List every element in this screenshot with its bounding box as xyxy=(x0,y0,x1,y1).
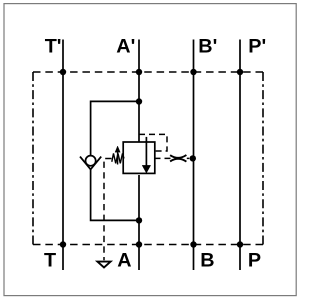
enclosure bottom dashed edge xyxy=(33,244,263,246)
restrictor R1 xyxy=(170,155,186,158)
svg-text:A': A' xyxy=(116,35,135,57)
flow control valve U1 envelope xyxy=(123,142,155,173)
svg-text:T: T xyxy=(44,249,56,271)
junction dot A top xyxy=(136,69,142,75)
wire A line lower xyxy=(138,175,140,270)
svg-text:B: B xyxy=(200,249,214,271)
svg-text:P: P xyxy=(248,249,261,271)
junction dot T bottom xyxy=(60,241,66,247)
svg-text:B': B' xyxy=(198,35,217,57)
check valve V1 circle xyxy=(86,156,96,166)
wire T line xyxy=(62,40,64,271)
pilot line from A to U1 top xyxy=(139,134,167,151)
enclosure top dashed edge xyxy=(33,71,263,73)
junction dot A bottom xyxy=(136,241,142,247)
drain pilot line xyxy=(104,159,112,261)
junction dot P top xyxy=(237,69,243,75)
wire check-valve branch bottom xyxy=(91,169,139,221)
flow control valve U1 internal flow arrow xyxy=(145,137,147,167)
check valve V1 seat xyxy=(80,157,101,170)
flow control valve U1 spring xyxy=(112,153,124,163)
drain arrow xyxy=(97,262,110,268)
junction dot B top xyxy=(190,69,196,75)
svg-text:T': T' xyxy=(45,35,62,57)
svg-text:P': P' xyxy=(248,35,266,57)
wire A line upper xyxy=(138,40,140,143)
enclosure left dash-dot edge xyxy=(32,72,34,245)
flow control valve U1 adjustment arrow xyxy=(117,150,119,165)
junction dot A branch lower xyxy=(136,217,142,223)
wire B line xyxy=(193,40,195,271)
wire check-valve branch top xyxy=(91,101,139,155)
svg-text:A: A xyxy=(117,249,131,271)
pilot line from U1 to B with restrictor xyxy=(155,157,194,159)
wire P line xyxy=(239,40,241,271)
junction dot A branch upper xyxy=(136,98,142,104)
junction dot B bottom xyxy=(190,241,196,247)
junction dot P bottom xyxy=(237,241,243,247)
enclosure right dash-dot edge xyxy=(262,72,264,245)
junction dot B restrictor xyxy=(190,155,196,161)
junction dot T top xyxy=(60,69,66,75)
